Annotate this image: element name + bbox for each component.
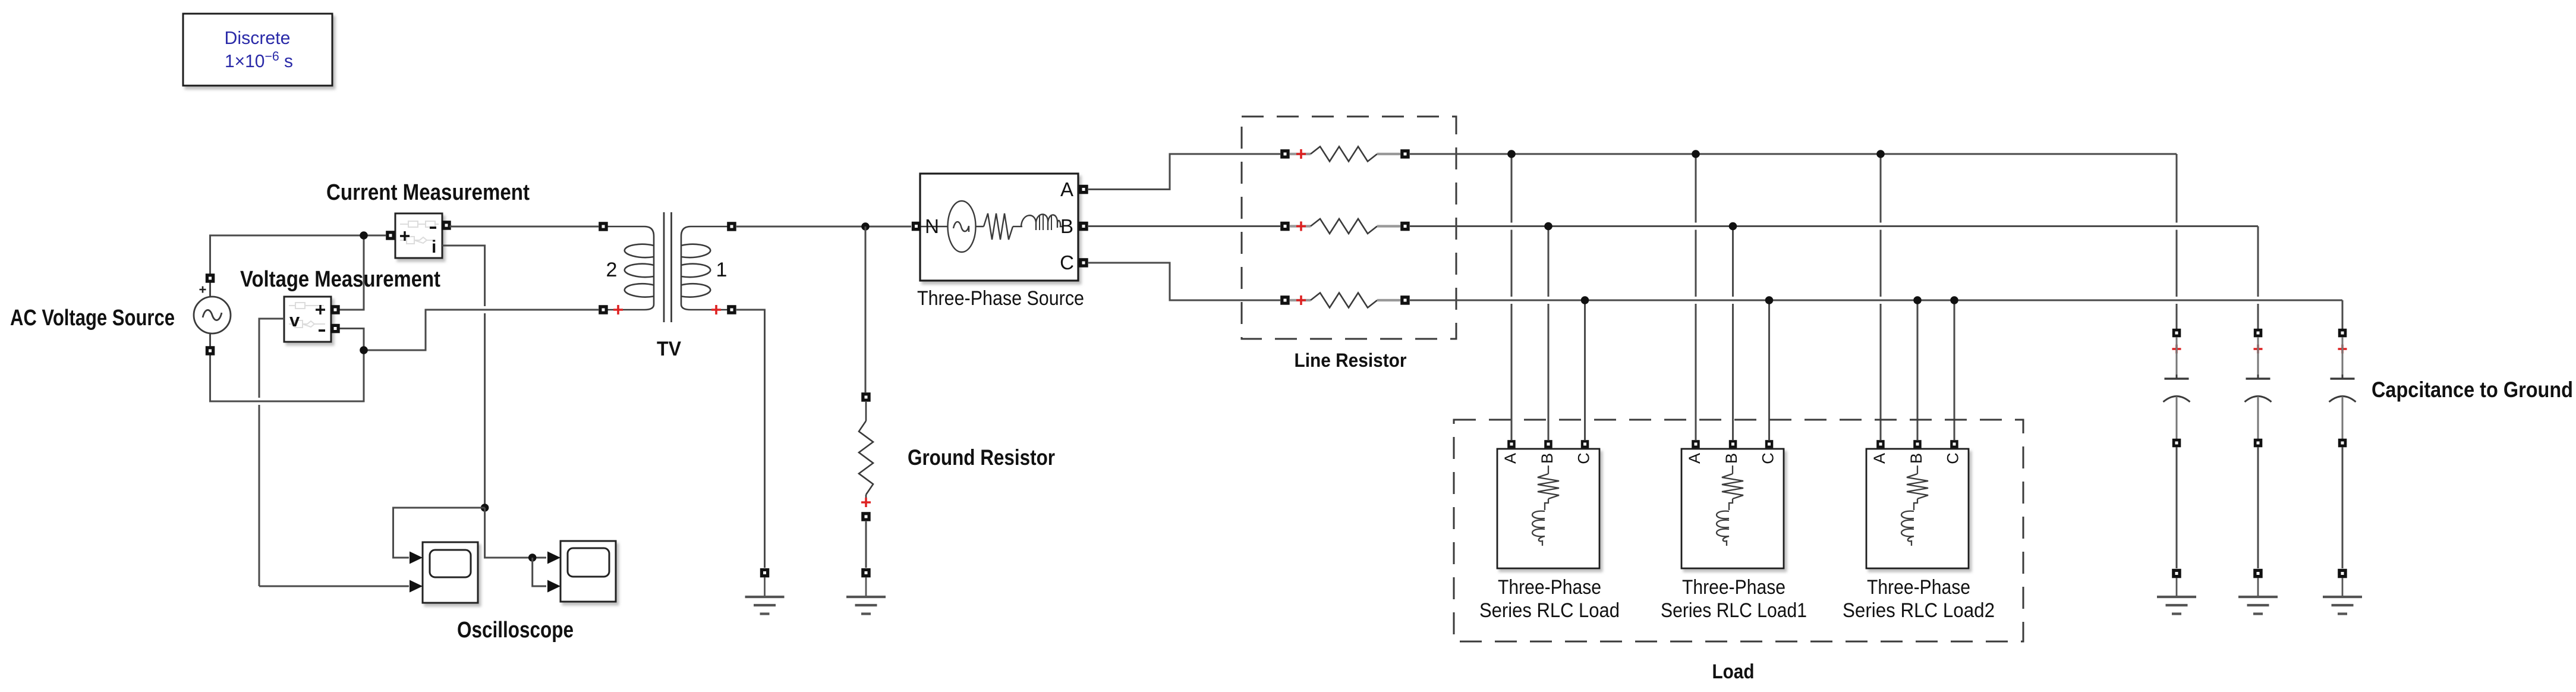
AC voltage source V symbol bbox=[194, 297, 231, 334]
port AC source - bbox=[206, 346, 215, 356]
wire phase B source to Line Resistor bbox=[1088, 225, 1280, 227]
wire junction V1 to Current Measurement + input bbox=[364, 235, 386, 237]
node V2 junction bbox=[360, 346, 368, 354]
svg-text:Line Resistor: Line Resistor bbox=[1295, 350, 1407, 371]
svg-text:Three-Phase: Three-Phase bbox=[1867, 576, 1970, 599]
port load3 C bbox=[1950, 440, 1958, 448]
ground G4 symbol bbox=[2238, 578, 2278, 614]
label winding number 1 bbox=[716, 259, 728, 281]
svg-text:TV: TV bbox=[657, 338, 681, 360]
svg-text:A: A bbox=[1501, 453, 1519, 464]
wire capacitor 1 to ground bbox=[2176, 447, 2178, 568]
port TV right-top bbox=[727, 222, 736, 231]
port TV left-bottom bbox=[599, 305, 608, 314]
node load2 A junction bbox=[1692, 150, 1700, 158]
port Three-Phase Source N bbox=[912, 222, 921, 231]
three-phase series RLC load block body bbox=[1497, 449, 1599, 568]
resistor Line Resistor phase C bbox=[1290, 293, 1400, 308]
wire load1 phase C drop bbox=[1584, 300, 1586, 440]
port capacitor 2 top bbox=[2254, 329, 2263, 338]
oscilloscope scope 1 block bbox=[423, 542, 478, 603]
wire junction V2 down and left to AC source bottom bbox=[210, 350, 364, 401]
capacitor C1 to ground bbox=[2164, 337, 2190, 439]
wire node S1 down to scope 2 row bbox=[485, 508, 546, 558]
svg-text:Ground Resistor: Ground Resistor bbox=[908, 445, 1055, 470]
wire Ground Resistor to ground G2 bbox=[865, 521, 867, 568]
wire bus phase A bbox=[1410, 153, 2177, 155]
ground G1 symbol bbox=[745, 577, 785, 614]
label Three-Phase Series RLC Load bbox=[1479, 576, 1620, 622]
voltage measurement block U-VM body bbox=[284, 297, 331, 342]
wire node S1 to Oscilloscope 1 input 1 bbox=[393, 508, 485, 558]
svg-text:i: i bbox=[432, 237, 436, 257]
node load1 B junction bbox=[1544, 222, 1552, 231]
svg-text:C: C bbox=[1060, 251, 1074, 273]
ground G2 symbol bbox=[846, 577, 886, 614]
wire node S2 to Oscilloscope 2 input 2 bbox=[533, 558, 546, 586]
wire bus A down to capacitor 1 bbox=[2176, 154, 2178, 329]
port capacitor 1 top bbox=[2172, 329, 2181, 338]
port Line Resistor A right bbox=[1400, 149, 1410, 159]
polarity + Ground Resistor bbox=[861, 498, 871, 507]
port Line Resistor B left bbox=[1280, 222, 1290, 231]
polarity + Line Resistor A bbox=[1296, 149, 1306, 159]
wire load2 phase B drop bbox=[1732, 227, 1734, 441]
wire junction V2 right to transformer left-bottom port bbox=[364, 310, 599, 350]
svg-text:B: B bbox=[1060, 215, 1073, 237]
port capacitor 2 bottom bbox=[2254, 439, 2263, 448]
port capacitor 3 bottom bbox=[2338, 439, 2347, 448]
svg-text:Discrete: Discrete bbox=[225, 27, 291, 48]
wire node N1 down to Ground Resistor bbox=[865, 227, 867, 392]
wire load2 phase A drop bbox=[1695, 154, 1697, 440]
wire junction V1 down to Voltage Measurement + port bbox=[339, 235, 364, 310]
port capacitor 3 top bbox=[2338, 329, 2347, 338]
scope 1 input arrow 1 bbox=[410, 552, 423, 564]
wire load3 phase C drop bbox=[1954, 300, 1955, 440]
port Line Resistor C right bbox=[1400, 295, 1410, 305]
resistor Line Resistor phase B bbox=[1290, 219, 1400, 234]
port TV left-top bbox=[599, 222, 608, 231]
svg-text:C: C bbox=[1759, 452, 1777, 464]
wire Current Measurement i output to scopes bbox=[442, 246, 485, 508]
svg-text:2: 2 bbox=[606, 259, 618, 281]
svg-text:Series RLC Load1: Series RLC Load1 bbox=[1661, 599, 1807, 622]
transformer TV winding 1 bbox=[681, 227, 728, 310]
port Ground Resistor top bbox=[861, 392, 871, 402]
label Line Resistor bbox=[1295, 350, 1407, 371]
label Three-Phase Series RLC Load2 bbox=[1843, 576, 1995, 622]
wire load1 phase B drop bbox=[1548, 227, 1550, 441]
port load1 C bbox=[1581, 440, 1589, 448]
port Line Resistor B right bbox=[1400, 222, 1410, 231]
wire phase C source to Line Resistor bbox=[1088, 263, 1280, 300]
wire bus phase C bbox=[1410, 300, 2342, 301]
port load2 A bbox=[1692, 440, 1700, 448]
port Line Resistor A left bbox=[1280, 149, 1290, 159]
wire load2 phase C drop bbox=[1768, 300, 1770, 440]
label Three-Phase Series RLC Load1 bbox=[1661, 576, 1807, 622]
node load1 A junction bbox=[1507, 150, 1516, 158]
svg-text:Capcitance to Ground: Capcitance to Ground bbox=[2372, 378, 2573, 402]
label AC Voltage Source bbox=[10, 306, 175, 331]
wire AC source internal stub bbox=[209, 278, 211, 351]
svg-text:A: A bbox=[1686, 453, 1703, 464]
capacitor C3 to ground bbox=[2329, 337, 2356, 439]
port TV right-bottom bbox=[727, 305, 736, 314]
port load3 A bbox=[1876, 440, 1885, 448]
dashed box Load subsystem bbox=[1454, 420, 2023, 641]
port load2 C bbox=[1765, 440, 1774, 448]
svg-text:N: N bbox=[925, 215, 939, 237]
port Voltage Measurement + bbox=[330, 305, 340, 314]
node load1 C junction bbox=[1581, 296, 1589, 304]
node S1 junction bbox=[481, 504, 489, 512]
port Three-Phase Source A bbox=[1079, 185, 1088, 194]
node load2 C junction bbox=[1765, 296, 1774, 304]
svg-text:A: A bbox=[1060, 178, 1073, 200]
transformer TV polarity + left bbox=[613, 305, 623, 314]
port ground G3 bbox=[2172, 569, 2181, 578]
label Ground Resistor bbox=[908, 445, 1055, 470]
wire CM - output to transformer left-top port bbox=[451, 225, 599, 227]
polarity + Line Resistor B bbox=[1296, 222, 1306, 231]
label Load bbox=[1712, 660, 1755, 683]
scope 1 input arrow 2 bbox=[410, 580, 423, 593]
three-phase source block body bbox=[920, 174, 1078, 281]
node load3 B junction bbox=[1913, 296, 1922, 304]
port ground G4 bbox=[2253, 569, 2263, 578]
svg-text:B: B bbox=[1538, 453, 1556, 464]
three-phase series RLC load1 block body bbox=[1681, 449, 1784, 568]
node V1 junction bbox=[360, 231, 368, 240]
polarity + capacitor 2 bbox=[2254, 345, 2263, 354]
svg-text:1: 1 bbox=[716, 259, 728, 281]
svg-text:v: v bbox=[289, 310, 300, 331]
label Three-Phase Source bbox=[917, 287, 1084, 310]
wire load1 phase A drop bbox=[1511, 154, 1513, 440]
transformer TV winding 2 bbox=[607, 227, 654, 310]
svg-text:Voltage Measurement: Voltage Measurement bbox=[240, 267, 440, 292]
capacitor C2 to ground bbox=[2245, 337, 2272, 439]
polarity + Line Resistor C bbox=[1296, 295, 1306, 305]
svg-text:Series RLC Load: Series RLC Load bbox=[1479, 599, 1620, 622]
port AC source + bbox=[206, 273, 215, 283]
svg-text:C: C bbox=[1575, 452, 1593, 464]
scope 2 input arrow 2 bbox=[547, 580, 560, 593]
port Ground Resistor bottom bbox=[861, 512, 871, 521]
svg-text:Oscilloscope: Oscilloscope bbox=[457, 618, 574, 643]
port capacitor 1 bottom bbox=[2172, 439, 2181, 448]
wire capacitor 2 to ground bbox=[2257, 447, 2259, 568]
node load3 A junction bbox=[1876, 150, 1885, 158]
node S2 junction bbox=[528, 553, 537, 562]
svg-text:Load: Load bbox=[1712, 660, 1755, 683]
port load1 A bbox=[1507, 440, 1516, 448]
dashed box Line Resistor subsystem bbox=[1242, 117, 1456, 339]
node load2 B junction bbox=[1729, 222, 1737, 231]
wire Voltage Measurement - port to junction V2 bbox=[339, 329, 364, 351]
node N1 junction bbox=[861, 222, 870, 231]
port ground G2 bbox=[861, 568, 871, 578]
svg-text:Series RLC Load2: Series RLC Load2 bbox=[1843, 599, 1995, 622]
svg-text:B: B bbox=[1907, 453, 1925, 464]
svg-text:AC Voltage Source: AC Voltage Source bbox=[10, 306, 175, 331]
svg-text:C: C bbox=[1944, 452, 1962, 464]
transformer TV polarity + right bbox=[711, 305, 721, 314]
wire load3 phase A drop bbox=[1880, 154, 1882, 440]
polarity + capacitor 1 bbox=[2172, 345, 2181, 354]
resistor Ground Resistor bbox=[859, 402, 873, 507]
wire capacitor 3 to ground bbox=[2342, 447, 2344, 568]
node load3 C junction bbox=[1950, 296, 1958, 304]
ground G5 symbol bbox=[2323, 578, 2362, 614]
svg-text:1×10−6 s: 1×10−6 s bbox=[225, 49, 293, 71]
port load3 B bbox=[1913, 440, 1922, 448]
port load1 B bbox=[1544, 440, 1552, 448]
port Three-Phase Source B bbox=[1079, 222, 1088, 231]
svg-text:Three-Phase: Three-Phase bbox=[1682, 576, 1785, 599]
polarity + capacitor 3 bbox=[2338, 345, 2347, 354]
port ground G5 bbox=[2338, 569, 2347, 578]
label Current Measurement bbox=[326, 180, 530, 205]
wire phase A source to Line Resistor bbox=[1088, 154, 1280, 190]
wire bus B down to capacitor 2 bbox=[2257, 227, 2259, 329]
wire bus phase B bbox=[1410, 225, 2258, 227]
transformer TV core bbox=[664, 212, 672, 322]
current measurement block U-CM body bbox=[395, 213, 442, 258]
svg-text:Current Measurement: Current Measurement bbox=[326, 180, 530, 205]
ground G3 symbol bbox=[2157, 578, 2196, 614]
svg-text:Three-Phase: Three-Phase bbox=[1498, 576, 1601, 599]
svg-text:B: B bbox=[1722, 453, 1740, 464]
wire AC source top to junction node V1 bbox=[210, 235, 364, 274]
port Current Measurement - output bbox=[442, 221, 451, 230]
label TV bbox=[657, 338, 681, 360]
resistor Line Resistor phase A bbox=[1290, 147, 1400, 162]
port ground G1 bbox=[760, 568, 770, 578]
oscilloscope scope 2 block bbox=[560, 541, 616, 602]
wire TV right-bottom to ground G1 bbox=[736, 310, 765, 568]
port Line Resistor C left bbox=[1280, 295, 1290, 305]
three-phase series RLC load2 block body bbox=[1866, 449, 1969, 568]
wire TV right-top to node N1 and Three-Phase Source N bbox=[736, 226, 911, 228]
port Current Measurement + input bbox=[386, 231, 395, 240]
svg-text:A: A bbox=[1870, 453, 1888, 464]
svg-text:Three-Phase Source: Three-Phase Source bbox=[917, 287, 1084, 310]
AC source + polarity mark bbox=[200, 287, 206, 293]
wire load3 phase B drop bbox=[1917, 300, 1919, 440]
wire bus C down to capacitor 3 bbox=[2342, 300, 2344, 329]
wire Voltage Measurement v output to Oscilloscope input 2 bbox=[259, 319, 409, 586]
port Three-Phase Source C bbox=[1079, 258, 1088, 268]
scope 2 input arrow 1 bbox=[547, 552, 560, 564]
port Voltage Measurement - bbox=[330, 324, 340, 334]
label Oscilloscope bbox=[457, 618, 574, 643]
label Capcitance to Ground bbox=[2372, 378, 2573, 402]
powergui block Discrete solver bbox=[183, 14, 332, 86]
port load2 B bbox=[1729, 440, 1737, 448]
label winding number 2 bbox=[606, 259, 618, 281]
label Voltage Measurement bbox=[240, 267, 440, 292]
